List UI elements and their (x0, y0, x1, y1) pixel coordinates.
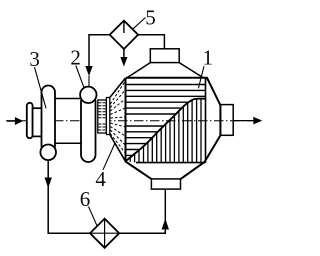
filter 5 diamond (110, 21, 138, 49)
right boss (220, 105, 233, 136)
pump half horizontal hatching (126, 85, 206, 156)
cone upper outline (110, 78, 126, 98)
chamber right wall (205, 78, 207, 163)
filter 5 outlet arrow (123, 49, 125, 58)
gland block (98, 100, 107, 133)
chamber bottom wall (136, 162, 206, 164)
output arrow (233, 120, 253, 122)
top boss (150, 49, 179, 63)
svg-text:3: 3 (29, 47, 40, 71)
S-curve separating pump and turbine (126, 99, 206, 161)
housing bottom line (46, 142, 90, 144)
bottom boss (151, 179, 180, 189)
svg-text:5: 5 (145, 5, 156, 29)
leader line 4 (103, 144, 115, 170)
pipe cooler to bottom boss (119, 189, 165, 233)
flange disc (27, 103, 33, 138)
svg-text:6: 6 (80, 187, 91, 211)
svg-text:2: 2 (70, 46, 81, 70)
hub (33, 108, 42, 136)
bearing unit 2 feed ball (80, 87, 96, 103)
turbine half vertical hatching (130, 93, 201, 163)
cooler 6 cross (104, 219, 106, 248)
casing outline (126, 78, 221, 179)
svg-text:1: 1 (203, 46, 214, 70)
leader line 6 (89, 207, 98, 227)
leader line 5 (133, 18, 146, 30)
housing top line (46, 98, 90, 100)
bearing unit 3 drain ball (40, 145, 56, 161)
input shaft arrow (7, 120, 16, 122)
leader line 3 (35, 67, 47, 108)
gland hatch rows (99, 103, 107, 130)
cone fan rays (110, 81, 125, 153)
cone base plate (106, 98, 109, 135)
filter 5 tick (123, 22, 125, 34)
cone lower outline (110, 135, 126, 162)
cooler 6 diamond (90, 219, 119, 248)
top boss right flare (179, 63, 203, 78)
centerline (6, 120, 252, 122)
leader line 1 (198, 66, 204, 88)
svg-text:4: 4 (95, 167, 106, 191)
bearing unit 2 capsule (81, 95, 96, 163)
top boss left flare (127, 63, 150, 78)
leader line 2 (76, 66, 84, 89)
pipe filter to bearing 2 (89, 35, 110, 67)
pipe filter to top boss (138, 35, 164, 49)
bearing unit 3 capsule (42, 86, 56, 153)
drain pipe bearing 3 to cooler (48, 160, 90, 233)
